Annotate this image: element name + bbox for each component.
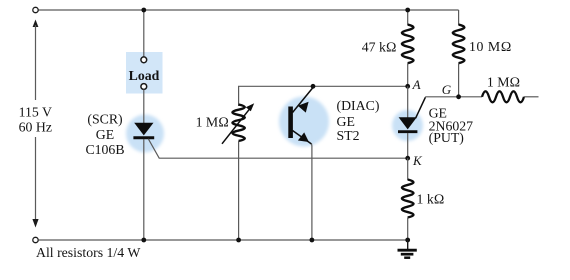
svg-text:10 MΩ: 10 MΩ: [469, 39, 512, 54]
svg-text:47 kΩ: 47 kΩ: [362, 40, 397, 55]
wire: 10M top lead (corner from top rail): [458, 10, 460, 25]
resistor 1 kohm: [402, 180, 414, 218]
wire: SCR gate lead: [148, 139, 407, 158]
wire: node K to 1k: [407, 158, 409, 180]
svg-text:Load: Load: [129, 68, 160, 83]
load highlight box: [126, 52, 163, 94]
SCR C106B: [133, 123, 154, 138]
svg-text:1 MΩ: 1 MΩ: [487, 74, 520, 89]
terminal: top-left source terminal: [33, 7, 38, 12]
junction dot: ground node on bottom rail: [405, 238, 410, 243]
svg-text:1 kΩ: 1 kΩ: [417, 192, 445, 207]
wire: PUT cathode to node K: [407, 133, 409, 158]
wire: top rail: [39, 9, 459, 11]
svg-text:All resistors 1/4 W: All resistors 1/4 W: [36, 245, 140, 260]
junction dot: DIAC on bottom rail: [310, 238, 315, 243]
wire: gate wire left segment: [425, 96, 482, 98]
wire: pot to bottom rail: [238, 141, 240, 240]
SCR highlight circle: [126, 115, 164, 153]
svg-text:GE: GE: [96, 127, 114, 142]
wire: load upper lead: [143, 10, 145, 57]
DIAC highlight circle: [279, 97, 329, 147]
resistor 47 kohm: [402, 25, 414, 64]
wire: DIAC bottom to bottom rail: [311, 144, 313, 241]
wire: node A to PUT anode: [407, 86, 409, 117]
junction dot: DIAC top tap: [311, 84, 316, 89]
junction dot: pot on bottom rail: [236, 238, 241, 243]
svg-text:115 V: 115 V: [19, 105, 52, 120]
potentiometer 1 Mohm: [222, 103, 254, 144]
svg-text:K: K: [412, 153, 423, 168]
node A junction dot: [405, 84, 410, 89]
svg-text:GE: GE: [337, 114, 355, 129]
node K junction dot: [405, 156, 410, 161]
svg-text:(PUT): (PUT): [429, 130, 464, 146]
PUT 2N6027: [398, 97, 425, 131]
terminal: load bottom: [141, 84, 147, 90]
wire: SCR cathode to bottom rail: [143, 139, 145, 240]
svg-text:(DIAC): (DIAC): [337, 98, 380, 114]
wire: bottom rail: [39, 239, 408, 241]
junction dot: load tap on top rail: [141, 8, 146, 13]
resistor 1 Mohm (gate series): [482, 91, 524, 102]
wire: 1k bottom lead: [407, 218, 409, 241]
DIAC ST2: [291, 88, 313, 145]
svg-text:G: G: [442, 82, 452, 97]
junction dot: node G (10M tap): [456, 94, 461, 99]
wire: left rail upper: [35, 25, 37, 100]
terminal: load top: [141, 57, 147, 63]
wire: load bottom to SCR anode: [143, 90, 145, 124]
svg-text:1 MΩ: 1 MΩ: [196, 114, 229, 129]
svg-text:C106B: C106B: [85, 142, 124, 157]
wire: gate wire right segment: [524, 96, 539, 98]
wire: 47k bottom lead to node A: [407, 63, 409, 86]
svg-text:ST2: ST2: [337, 128, 360, 143]
resistor 10 Mohm: [453, 25, 465, 64]
ground: [398, 240, 417, 258]
wire: 47k top lead: [407, 10, 409, 25]
svg-text:(SCR): (SCR): [87, 112, 122, 128]
wire: left rail lower: [35, 137, 37, 221]
junction dot: 47k tap on top rail: [405, 8, 410, 13]
PUT highlight circle: [392, 110, 423, 141]
svg-text:60 Hz: 60 Hz: [19, 120, 52, 135]
source arrow up: [33, 20, 39, 28]
wire: 10M bottom lead to gate wire: [458, 63, 460, 97]
wire: phase network top (pot corner to node A): [239, 86, 408, 106]
junction dot: SCR cathode on bottom rail: [141, 238, 146, 243]
svg-text:A: A: [412, 77, 421, 92]
terminal: bottom-left source terminal: [33, 237, 38, 242]
source arrow down: [32, 219, 38, 228]
